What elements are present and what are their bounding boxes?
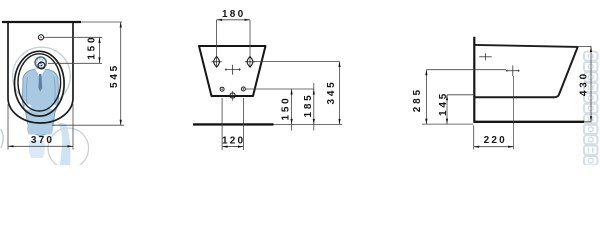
dim 120 line (222, 146, 243, 148)
extension line top (545/150 ref) (81, 21, 122, 23)
bottom line side (473, 121, 584, 123)
faucet cross front (225, 65, 241, 75)
dim 150 line view1 (99, 37, 101, 63)
dim 545 line (120, 22, 122, 125)
watermark arc left edge (1, 129, 3, 148)
dim 430 line (590, 47, 592, 122)
svg-text:370: 370 (31, 135, 54, 146)
ext lines 220 (473, 126, 475, 150)
front slant and underside (474, 47, 578, 98)
watermark head (shower ring) (35, 57, 46, 68)
watermark drop below (27, 117, 53, 135)
svg-text:285: 285 (412, 87, 423, 112)
watermark arm lines (26, 77, 55, 103)
ext lines 180 (216, 20, 218, 68)
ext 430 top (578, 46, 592, 48)
wall line side (473, 37, 475, 122)
floor extension (274, 123, 343, 125)
svg-text:150: 150 (281, 95, 292, 120)
watermark hands (25, 104, 32, 110)
bowl inner rim (18, 54, 61, 111)
svg-text:220: 220 (484, 135, 507, 146)
faucet cross side (506, 65, 520, 76)
watermark circle bottom right (48, 128, 89, 169)
bottom hole right (241, 87, 245, 91)
ext lines 120 (221, 98, 223, 150)
dim 220 line (474, 146, 514, 148)
svg-text:120: 120 (222, 136, 245, 147)
mounting hole left (212, 57, 222, 68)
dim 145 line (446, 95, 448, 124)
drain hole front (230, 93, 235, 98)
dim 345 line (339, 62, 341, 125)
ext lines 370 (7, 104, 9, 150)
leader faucet to 150 dim (44, 36, 102, 38)
wall line (2, 21, 81, 23)
watermark logo circle view1 (1, 47, 89, 168)
floor line (193, 123, 274, 125)
leader bottom holes (246, 88, 314, 90)
watermark collar and tie (35, 69, 46, 78)
mounting hole right (245, 57, 255, 68)
dim 180 line (217, 19, 250, 21)
svg-text:430: 430 (579, 71, 590, 96)
dim 285 line (425, 70, 427, 124)
leader 285 (426, 69, 506, 71)
watermark letter column right (584, 52, 598, 166)
bottom ext to 430 (584, 121, 592, 123)
bidet body outline (8, 23, 73, 123)
svg-text:150: 150 (87, 35, 98, 60)
faucet hole (38, 35, 43, 40)
watermark person body (22, 69, 58, 136)
leader sprayer to 150 dim (48, 62, 102, 64)
bowl outer rim (15, 51, 65, 116)
trapezoid body (199, 46, 266, 96)
dim 150 line view2 (291, 89, 293, 131)
svg-text:345: 345 (326, 79, 337, 104)
leader mounting holes (253, 61, 340, 63)
dim 370 line (8, 145, 73, 147)
watermark faint blob below (29, 140, 45, 158)
top edge side (474, 45, 578, 47)
sprayer hole (38, 62, 45, 69)
drain centerline side (513, 76, 515, 150)
leader 145 (447, 94, 474, 96)
leader bottom side (422, 123, 474, 125)
ext line bottom (545 ref) (52, 124, 124, 126)
svg-text:180: 180 (222, 9, 245, 20)
bottom hole left (220, 87, 224, 91)
svg-text:545: 545 (109, 63, 120, 88)
svg-text:145: 145 (438, 91, 449, 116)
small cross inlet (479, 53, 491, 60)
svg-text:185: 185 (303, 92, 314, 117)
dim 185 line (313, 83, 315, 131)
